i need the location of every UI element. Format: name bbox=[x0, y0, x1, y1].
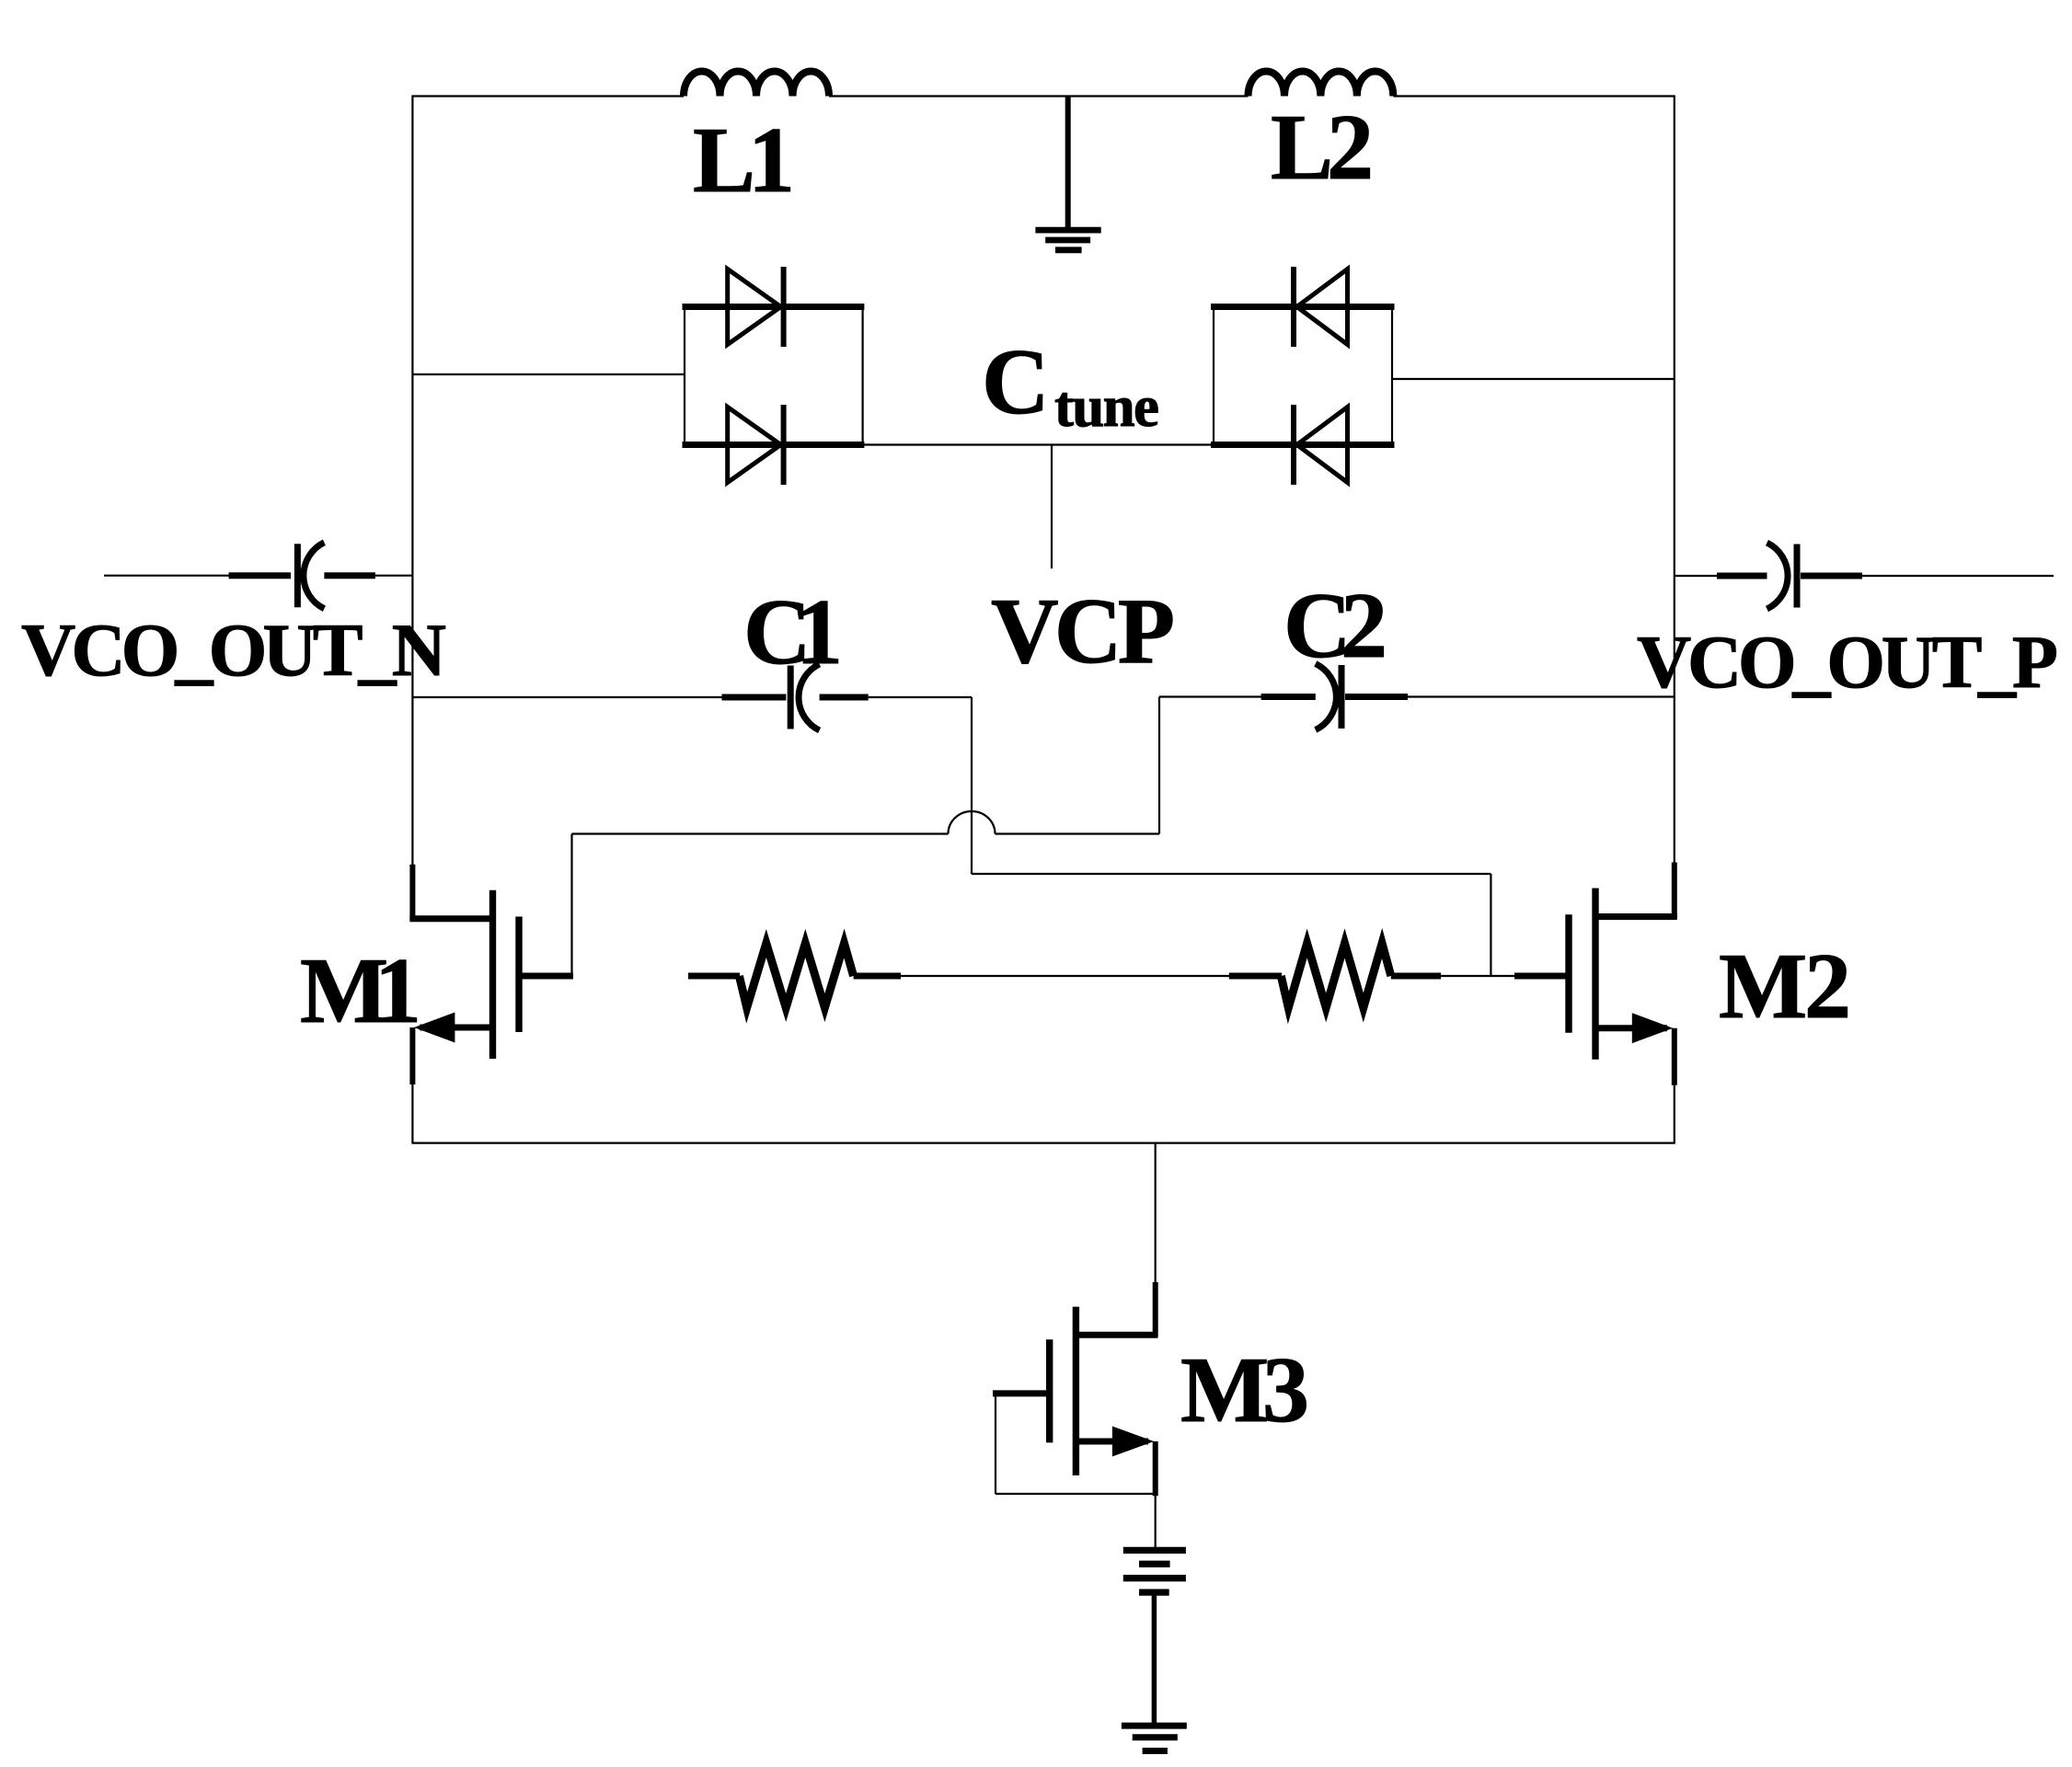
label C1 bbox=[743, 580, 843, 684]
wire left rail (VCO_OUT_N node) bbox=[411, 97, 413, 866]
wire M1-gate cross wire (right of bridge) bbox=[996, 832, 1160, 834]
wire M3 source to battery bbox=[1155, 1496, 1157, 1548]
wire bottom rail to M3 drain bbox=[1155, 1143, 1157, 1282]
label L1 bbox=[693, 109, 795, 212]
wire C1 to corner bbox=[869, 696, 972, 698]
resistor R2 left lead bbox=[1229, 973, 1282, 980]
varactor diode D2 (left bottom, pointing right) bbox=[683, 405, 865, 485]
label C2 bbox=[1283, 574, 1387, 678]
wire top rail middle segment bbox=[829, 95, 1249, 97]
svg-text:M2: M2 bbox=[1719, 935, 1851, 1038]
varactor diode D1 (left top, pointing right) bbox=[683, 267, 865, 347]
wire M1 source to bottom rail bbox=[411, 1084, 413, 1143]
svg-text:L2: L2 bbox=[1271, 96, 1374, 200]
svg-text:M3: M3 bbox=[1180, 1338, 1309, 1442]
wire right varactor to right rail bbox=[1392, 378, 1675, 380]
resistor R1 right lead bbox=[854, 973, 901, 980]
inductor L2 bbox=[1249, 71, 1394, 96]
ground (top, between L1 and L2) bbox=[1035, 97, 1100, 250]
svg-text:tune: tune bbox=[1054, 374, 1159, 439]
svg-text:VCO_OUT_P: VCO_OUT_P bbox=[1637, 620, 2058, 704]
label C_tune bbox=[982, 330, 1159, 439]
svg-text:C2: C2 bbox=[1283, 574, 1387, 678]
wire bridge hop over vertical bbox=[949, 811, 996, 834]
transistor M3 bbox=[993, 1282, 1158, 1496]
capacitor C1 bbox=[722, 664, 869, 730]
wire R1 to R2 bbox=[901, 975, 1230, 977]
wire top rail right segment bbox=[1393, 95, 1675, 97]
wire right rail (VCO_OUT_P node) bbox=[1674, 97, 1675, 866]
wire cross-coupling to M2 gate (horizontal) bbox=[972, 873, 1491, 875]
wire riser up to C2 level bbox=[1158, 697, 1160, 834]
wire M3 gate tied to source bbox=[996, 1394, 1156, 1494]
svg-text:M1: M1 bbox=[300, 939, 421, 1043]
wire VCO_OUT_N cap to left rail bbox=[375, 575, 413, 577]
varactor diode D4 (right bottom, pointing left) bbox=[1211, 405, 1395, 485]
transistor M1 bbox=[409, 865, 573, 1084]
label VCO_OUT_N bbox=[21, 608, 446, 692]
wire left rail to left varactor anodes bbox=[412, 373, 685, 375]
svg-text:L1: L1 bbox=[693, 109, 795, 212]
inductor L1 bbox=[684, 72, 829, 97]
capacitor (VCO_OUT_N coupling) bbox=[229, 543, 375, 609]
resistor R1 bbox=[739, 944, 853, 1008]
resistor R2 bbox=[1281, 944, 1391, 1008]
wire bottom rail (common source node) bbox=[411, 1142, 1675, 1143]
wire R2 to M2 gate bbox=[1441, 975, 1514, 977]
label VCP bbox=[991, 579, 1175, 683]
wire battery to ground bbox=[1152, 1595, 1157, 1726]
wire corner down from C1 bbox=[971, 697, 973, 874]
node right varactor box verticals bbox=[1214, 305, 1392, 447]
capacitor C2 bbox=[1261, 664, 1408, 730]
wire M1-gate cross wire (left of bridge) bbox=[572, 832, 949, 834]
resistor R2 right lead bbox=[1391, 973, 1441, 980]
svg-text:C1: C1 bbox=[743, 580, 843, 684]
label M1 bbox=[300, 939, 421, 1043]
wire C_tune node between varactor pairs bbox=[863, 443, 1214, 445]
varactor diode D3 (right top, pointing left) bbox=[1211, 267, 1395, 347]
wire VCO_OUT_P port lead bbox=[1862, 575, 2054, 577]
wire left rail to C1 bbox=[412, 696, 723, 698]
wire right rail to VCO_OUT_P cap bbox=[1675, 575, 1718, 577]
resistor R1 left lead bbox=[688, 973, 740, 980]
ground (bottom) bbox=[1122, 1726, 1187, 1750]
wire top rail left segment (VDD rail) bbox=[411, 95, 684, 97]
wire C2 to right rail bbox=[1408, 695, 1675, 697]
wire VCO_OUT_N port lead bbox=[104, 575, 230, 577]
transistor M2 bbox=[1514, 863, 1677, 1085]
svg-text:C: C bbox=[982, 330, 1050, 434]
label M2 bbox=[1719, 935, 1851, 1038]
wire riser down to M2 gate node bbox=[1490, 874, 1491, 976]
label VCO_OUT_P bbox=[1637, 620, 2058, 704]
label L2 bbox=[1271, 96, 1374, 200]
capacitor (VCO_OUT_P coupling) bbox=[1717, 543, 1862, 609]
svg-text:VCP: VCP bbox=[991, 579, 1175, 683]
wire riser corner to C2 bbox=[1159, 695, 1261, 697]
wire M2 source to bottom rail bbox=[1674, 1081, 1675, 1143]
label M3 bbox=[1180, 1338, 1309, 1442]
node left varactor box verticals bbox=[685, 305, 863, 447]
wire VCP stub bbox=[1051, 445, 1053, 569]
wire riser up from M1 gate bbox=[570, 834, 572, 977]
svg-text:VCO_OUT_N: VCO_OUT_N bbox=[21, 608, 446, 692]
battery (bias source) bbox=[1123, 1550, 1186, 1592]
